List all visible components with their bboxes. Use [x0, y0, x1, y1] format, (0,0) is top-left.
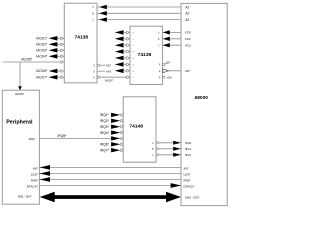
- svg-text:IRQ7*: IRQ7*: [100, 148, 110, 152]
- svg-text:IACK*: IACK*: [105, 79, 114, 83]
- wire IACK5* vertical drop: [19, 62, 21, 86]
- svg-text:B: B: [152, 147, 154, 151]
- U1 output Y5 / IACK6*: [60, 70, 62, 72]
- U2 output Y5: [126, 63, 128, 65]
- U3 input 7 / IRQ7*: [120, 149, 122, 151]
- svg-text:B: B: [92, 11, 94, 15]
- svg-text:C: C: [158, 43, 160, 47]
- U3 input 1 / IRQ1*: [120, 114, 122, 116]
- svg-text:B: B: [158, 37, 160, 41]
- svg-text:IRQ*: IRQ*: [29, 137, 36, 141]
- U3 output A / wire IPL0: [156, 142, 158, 144]
- 74138 decoder U2 (FC decoder): [130, 26, 162, 84]
- wire IRQ5* from peripheral: [39, 137, 113, 139]
- U1 enable E3 / wire IACK* from U2 Y7: [97, 76, 99, 78]
- wire A1 68000 to U1 A: [97, 6, 181, 8]
- svg-text:A: A: [158, 31, 160, 35]
- 74148 priority encoder U3: [123, 97, 156, 162]
- svg-text:FC1: FC1: [185, 37, 191, 41]
- svg-text:IRQ5*: IRQ5*: [58, 134, 68, 138]
- wire R/W* peripheral to 68000: [39, 179, 181, 181]
- U3 output C / wire IPL2: [156, 154, 158, 156]
- svg-text:IRQ1*: IRQ1*: [100, 113, 110, 117]
- U3 input 6 / IRQ6*: [120, 143, 122, 145]
- svg-text:IACK7*: IACK7*: [36, 75, 48, 79]
- wire FC2 68000 to U2 C: [162, 44, 181, 46]
- U2 output Y1: [126, 38, 128, 40]
- svg-text:IACK1*: IACK1*: [36, 36, 48, 40]
- U1 output Y3 / IACK4*: [60, 55, 62, 57]
- Peripheral block: [2, 90, 39, 204]
- svg-text:IACK4*: IACK4*: [36, 54, 48, 58]
- svg-text:C: C: [152, 153, 154, 157]
- svg-text:74138: 74138: [75, 34, 89, 40]
- svg-text:A2: A2: [184, 12, 189, 16]
- U2 output Y2: [126, 44, 128, 46]
- svg-text:IPL0: IPL0: [185, 141, 192, 145]
- U2 output Y0: [126, 31, 128, 33]
- U2 output Y4: [126, 57, 128, 59]
- U1 output Y2 / IACK3*: [60, 49, 62, 51]
- svg-text:IACK5*: IACK5*: [15, 92, 25, 96]
- U1 enable E2 stub +5V: [97, 70, 105, 72]
- U2 enable E2 / wire AS* from 68000: [162, 70, 181, 72]
- wire A3 68000 to U1 C: [97, 19, 181, 21]
- svg-text:FC0: FC0: [185, 31, 191, 35]
- svg-text:FC2: FC2: [185, 43, 191, 47]
- U2 enable E3 stub +5V: [163, 76, 165, 78]
- svg-text:D00 - D07: D00 - D07: [18, 195, 32, 199]
- svg-text:E: E: [159, 69, 161, 73]
- svg-text:A1: A1: [184, 5, 189, 9]
- svg-text:IRQ4*: IRQ4*: [100, 131, 110, 135]
- U1 output Y6 / IACK7*: [60, 76, 62, 78]
- svg-text:A: A: [152, 141, 154, 145]
- wire FC1 68000 to U2 B: [162, 38, 181, 40]
- wire AS* peripheral to 68000: [39, 166, 181, 168]
- svg-text:AS*: AS*: [33, 167, 39, 171]
- svg-text:IPL1: IPL1: [185, 147, 192, 151]
- svg-text:E: E: [93, 69, 95, 73]
- data bus D00 - D07: [50, 195, 170, 199]
- 68000 CPU: [181, 3, 227, 205]
- svg-text:IPL2: IPL2: [185, 153, 192, 157]
- svg-text:AS*: AS*: [185, 69, 191, 73]
- U3 output B / wire IPL1: [156, 148, 158, 150]
- svg-text:IRQ6*: IRQ6*: [100, 142, 110, 146]
- svg-text:DTACK*: DTACK*: [184, 185, 196, 189]
- svg-text:IRQ3*: IRQ3*: [100, 125, 110, 129]
- svg-text:LDS*: LDS*: [184, 173, 192, 177]
- svg-text:R/W*: R/W*: [31, 179, 39, 183]
- svg-text:AS*: AS*: [106, 63, 112, 67]
- svg-text:74138: 74138: [138, 52, 152, 58]
- svg-text:E: E: [93, 63, 95, 67]
- svg-text:DTACK*: DTACK*: [27, 185, 39, 189]
- wire A2 68000 to U1 B: [97, 12, 181, 14]
- svg-text:D00 - D07: D00 - D07: [185, 195, 199, 199]
- U3 input 5 / IRQ5*: [120, 137, 122, 139]
- U1 output Y0 / IACK1*: [60, 37, 62, 39]
- svg-text:E: E: [159, 75, 161, 79]
- U2 output Y6: [126, 70, 128, 72]
- U2 output Y3: [126, 50, 128, 52]
- U2 output Y7: [126, 76, 128, 78]
- svg-text:+5V: +5V: [166, 75, 171, 79]
- U1 enable E1 stub AS*: [97, 64, 99, 66]
- svg-text:IRQ2*: IRQ2*: [100, 119, 110, 123]
- wire LDS* peripheral to 68000: [39, 173, 181, 175]
- svg-text:R/W*: R/W*: [184, 179, 192, 183]
- svg-text:IACK6*: IACK6*: [36, 69, 48, 73]
- U3 input 2 / IRQ2*: [120, 120, 122, 122]
- svg-text:IACK5*: IACK5*: [21, 58, 33, 62]
- U3 input 4 / IRQ4*: [120, 131, 122, 133]
- svg-text:LDS*: LDS*: [31, 173, 39, 177]
- U1 output Y1 / IACK2*: [60, 43, 62, 45]
- wire FC0 68000 to U2 A: [162, 31, 181, 33]
- svg-text:0V: 0V: [166, 61, 170, 65]
- svg-text:IACK2*: IACK2*: [36, 42, 48, 46]
- svg-text:A3: A3: [184, 18, 189, 22]
- svg-text:E: E: [93, 75, 95, 79]
- svg-text:C: C: [92, 18, 94, 22]
- U3 input 3 / IRQ3*: [120, 126, 122, 128]
- 74138 decoder U1 (IACK generator): [64, 3, 97, 83]
- svg-text:+5V: +5V: [106, 69, 111, 73]
- U1 output Y4 / wire IACK5* to peripheral: [60, 61, 62, 63]
- svg-text:74148: 74148: [129, 124, 143, 130]
- svg-text:Peripheral: Peripheral: [6, 119, 33, 125]
- svg-text:A: A: [92, 5, 94, 9]
- svg-text:E: E: [159, 63, 161, 67]
- wire DTACK* peripheral to 68000: [39, 185, 181, 187]
- svg-text:IACK3*: IACK3*: [36, 48, 48, 52]
- U2 enable E1 stub 0V: [163, 63, 165, 65]
- svg-text:68000: 68000: [195, 95, 209, 101]
- svg-text:AS*: AS*: [184, 167, 190, 171]
